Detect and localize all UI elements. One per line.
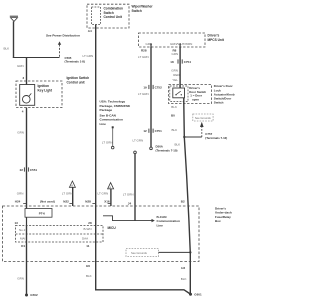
connector C752 [149, 85, 153, 89]
svg-text:X16: X16 [104, 199, 110, 203]
svg-text:GRN: GRN [17, 64, 24, 68]
svg-text:Switch: Switch [104, 11, 114, 15]
connector C754 [178, 59, 182, 63]
combination switch control unit outer dashed box [87, 4, 129, 28]
svg-text:Switch: Switch [132, 9, 142, 13]
svg-text:GRN: GRN [171, 68, 178, 72]
svg-text:B0: B0 [171, 113, 175, 117]
svg-text:C751: C751 [155, 129, 163, 133]
svg-text:Package: Package [100, 108, 113, 112]
ignition key light dashed box [16, 81, 62, 108]
lamp bulb circle [23, 96, 31, 104]
ground G601 [189, 293, 192, 296]
svg-text:MPCS Unit: MPCS Unit [208, 38, 225, 42]
svg-text:BLK: BLK [172, 128, 178, 132]
under-dash fuse/relay box dashed outline [3, 206, 200, 262]
svg-text:MAI: MAI [20, 237, 26, 241]
MPCS internal stubs [150, 44, 152, 48]
svg-text:Control unit: Control unit [67, 81, 86, 85]
ref arrow A (N22) [69, 181, 75, 187]
DSA technology package note [100, 100, 131, 126]
svg-text:C754: C754 [184, 60, 192, 64]
wire center through MICU to G601 [96, 206, 191, 294]
door switch housing rect [173, 88, 185, 98]
svg-text:19: 19 [143, 86, 147, 90]
driver's door switch dashed box [169, 85, 212, 104]
svg-text:R28: R28 [141, 49, 147, 53]
svg-text:E6: E6 [86, 264, 90, 268]
combination switch inner dashed box [92, 7, 101, 25]
svg-text:See Power Distribution: See Power Distribution [46, 34, 80, 38]
B-CAN dashed ref line [112, 126, 114, 128]
see grounds ref box 2 [126, 249, 159, 257]
lamp housing rect [20, 85, 35, 106]
svg-text:LT GRN: LT GRN [133, 138, 144, 142]
wire MPCS right down [179, 47, 181, 88]
svg-text:H2: H2 [181, 266, 185, 270]
svg-text:B-WN: B-WN [84, 227, 92, 231]
svg-text:G502: G502 [30, 293, 38, 297]
svg-text:Switch: Switch [214, 101, 224, 105]
svg-text:Ignition: Ignition [38, 84, 50, 88]
svg-text:YEL: YEL [172, 78, 178, 82]
svg-text:(Not used): (Not used) [40, 199, 55, 203]
svg-text:DAA: DAA [82, 237, 88, 241]
svg-text:GRN: GRN [172, 52, 179, 56]
see power distribution ref arrow [58, 41, 61, 57]
svg-text:PT-6: PT-6 [39, 211, 45, 215]
caption Driver's Door Lock Actuator [214, 84, 235, 104]
svg-text:BLK: BLK [175, 142, 181, 146]
caption Driver's Under-dash Fuse/Relay Box [215, 207, 232, 223]
svg-text:GRN: GRN [17, 276, 24, 280]
see grounds ref box 1 [193, 114, 213, 121]
door switch inner dashed box [170, 86, 188, 102]
svg-text:H24: H24 [15, 199, 21, 203]
svg-text:A4: A4 [88, 29, 92, 33]
svg-text:(Terminals 7-12): (Terminals 7-12) [205, 136, 227, 140]
svg-text:Driver's: Driver's [208, 34, 220, 38]
switch symbol [175, 91, 182, 95]
wire ignition to fuse box [26, 108, 28, 209]
wire X16 [110, 189, 112, 206]
svg-text:28: 28 [88, 221, 92, 225]
svg-text:D1: D1 [21, 244, 25, 248]
wire PT-6 to MICU [26, 217, 28, 225]
svg-text:See Grounds: See Grounds [195, 116, 211, 120]
svg-text:18: 18 [170, 60, 174, 64]
svg-text:C752: C752 [155, 86, 163, 90]
svg-text:(Terminals 7-10): (Terminals 7-10) [156, 148, 178, 152]
wire down to ignition key light [26, 57, 28, 85]
svg-text:LT GRN: LT GRN [138, 55, 149, 59]
wire N22 [72, 187, 74, 206]
svg-text:13: 13 [15, 221, 19, 225]
svg-text:LT GRN: LT GRN [83, 54, 94, 58]
wire see grounds to G601 wire [159, 251, 191, 253]
svg-text:N28: N28 [85, 199, 91, 203]
svg-text:LT GRN: LT GRN [62, 191, 73, 195]
svg-text:LT GRN: LT GRN [123, 193, 134, 197]
svg-text:Box: Box [215, 219, 221, 223]
svg-text:BLK: BLK [4, 47, 10, 51]
svg-text:11: 11 [86, 244, 90, 248]
ground G502 [25, 294, 28, 297]
svg-text:GRN/WHT/WRN: GRN/WHT/WRN [170, 42, 192, 46]
svg-text:LT GRN: LT GRN [138, 92, 149, 96]
connector D50A socket [150, 147, 153, 150]
svg-text:GRN: GRN [17, 191, 24, 195]
connector D50A mate socket [134, 151, 137, 154]
junction dot at see grounds line [189, 251, 191, 253]
svg-text:Control Unit: Control Unit [104, 15, 123, 19]
wire door switch to G601 [184, 137, 190, 294]
svg-text:N22: N22 [63, 199, 69, 203]
wire combination switch down [95, 25, 97, 207]
ground symbol G-top [10, 16, 18, 21]
fuse PT-6 box [25, 209, 52, 218]
svg-text:12: 12 [143, 129, 147, 133]
svg-text:BLK: BLK [86, 274, 92, 278]
svg-text:22: 22 [20, 168, 24, 172]
svg-text:MICU: MICU [108, 226, 117, 230]
svg-text:LT GRN: LT GRN [98, 191, 109, 195]
wire left through MICU [26, 226, 28, 296]
junction dot [183, 136, 185, 138]
C757 ref dashed arrow up [201, 127, 203, 137]
svg-text:LT GRN: LT GRN [102, 140, 113, 144]
branch wire to C757 ref [184, 136, 202, 138]
svg-text:BLK: BLK [181, 277, 187, 281]
svg-text:See Grounds: See Grounds [131, 251, 147, 255]
svg-text:Line: Line [157, 223, 164, 227]
driver's MPCS unit dashed box [139, 33, 206, 47]
wire MPCS left down [150, 47, 152, 147]
svg-text:Combination: Combination [104, 6, 124, 10]
svg-text:Line: Line [100, 122, 107, 126]
wire horizontal to power dist [13, 57, 60, 59]
svg-text:(Terminals 1-8): (Terminals 1-8) [65, 60, 85, 64]
connector C751 [149, 129, 153, 133]
svg-text:Ignition Switch: Ignition Switch [67, 76, 90, 80]
wire from ground down [13, 21, 15, 57]
wire J4 down [134, 154, 136, 221]
ref arrow B (X16) [108, 183, 114, 189]
svg-text:C551: C551 [30, 168, 38, 172]
B-CAN communication line arrow [103, 216, 152, 221]
svg-text:B2: B2 [181, 200, 185, 204]
svg-text:Key Light: Key Light [38, 89, 53, 93]
svg-text:open: open [192, 97, 199, 101]
MICU dashed box [16, 226, 104, 243]
svg-text:RED: RED [173, 73, 180, 77]
svg-text:GRN: GRN [17, 130, 24, 134]
svg-text:Wiper/Washer: Wiper/Washer [132, 4, 154, 8]
svg-text:BLK: BLK [171, 105, 177, 109]
wire door switch down [183, 98, 186, 137]
svg-text:J4: J4 [128, 201, 132, 205]
svg-text:G601: G601 [194, 292, 202, 296]
connector C551 [24, 167, 28, 171]
